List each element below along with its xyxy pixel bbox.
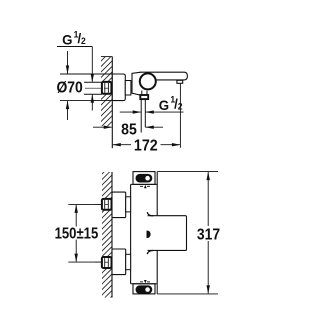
svg-text:Ø70: Ø70 [56,79,82,97]
svg-text:150±15: 150±15 [55,225,99,242]
svg-text:G: G [159,98,169,113]
svg-text:317: 317 [197,226,220,244]
svg-text:172: 172 [134,137,158,155]
svg-text:2: 2 [178,101,183,111]
svg-text:G: G [62,32,72,47]
svg-text:2: 2 [81,36,86,46]
